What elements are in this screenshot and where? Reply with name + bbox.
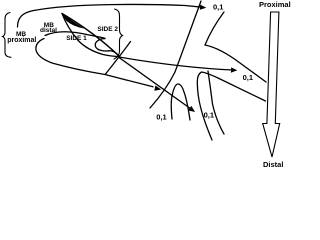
label Proximal <box>259 1 291 9</box>
label SIDE 1 <box>66 36 87 43</box>
hook curve with arrow A <box>36 39 153 87</box>
V upper segment <box>205 12 224 45</box>
svg-text:0,1: 0,1 <box>156 112 166 121</box>
V lower segment to shaft <box>205 45 266 82</box>
X cross stroke <box>106 42 131 75</box>
arrow A head <box>154 86 161 91</box>
label MB distal: distal <box>40 28 57 35</box>
branch line B2 <box>208 71 224 134</box>
arrow 3 line <box>119 58 191 110</box>
wedge dark fill near apex <box>62 14 84 29</box>
svg-text:0,1: 0,1 <box>243 73 253 82</box>
label Distal <box>263 161 283 169</box>
label MB distal: MB <box>44 23 54 30</box>
label MB proximal: MB <box>16 32 26 39</box>
R1 corner curve to shaft and down <box>197 72 265 140</box>
wedge lower edge <box>62 14 120 57</box>
label SIDE 2 <box>97 27 118 34</box>
label MB proximal: proximal <box>7 37 36 44</box>
wedge upper edge <box>62 14 120 57</box>
right brace <box>114 9 123 59</box>
svg-text:0,1: 0,1 <box>204 110 214 119</box>
arrow 1 line (top long curve) <box>18 4 203 27</box>
block arrow outline <box>263 12 280 157</box>
arrow 3 head <box>188 106 195 112</box>
arrow 2 line <box>119 57 233 70</box>
svg-text:0,1: 0,1 <box>213 3 223 12</box>
hump curve <box>171 84 190 120</box>
left brace <box>3 13 12 58</box>
arrow 2 head <box>231 67 237 72</box>
loop curve <box>45 32 120 57</box>
steep line L1 <box>150 1 201 108</box>
arrow 1 head <box>200 5 207 10</box>
